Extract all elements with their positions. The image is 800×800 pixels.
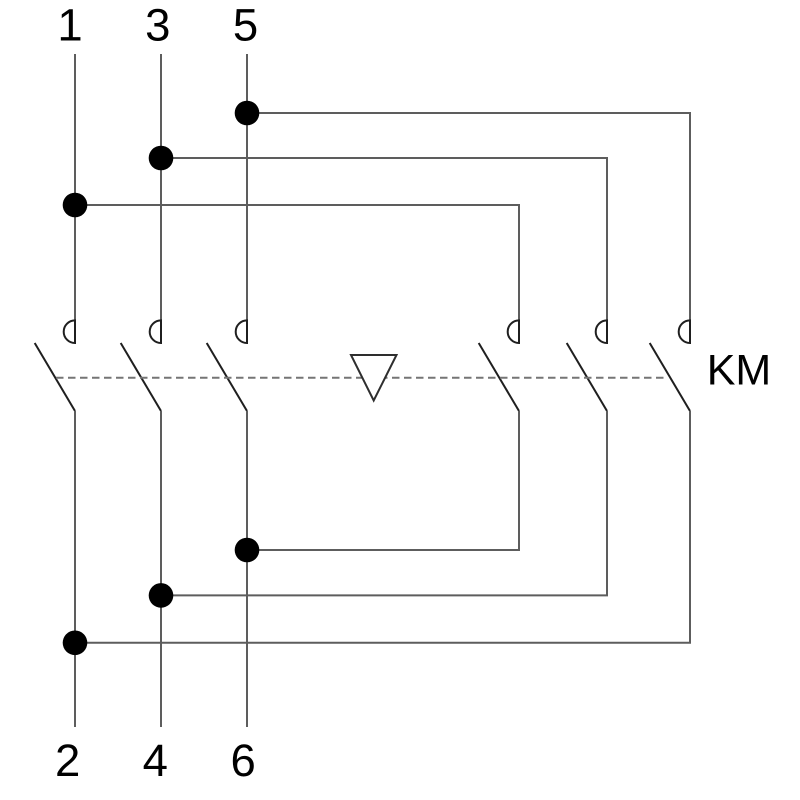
contact KM pole 4 moving blade (479, 343, 519, 411)
svg-text:3: 3 (145, 0, 170, 51)
svg-text:KM: KM (707, 347, 772, 395)
wire: from L5 junction right and down to pole 6 top (247, 113, 690, 343)
wire: pole 5 bottom down and left to L4 junction (161, 411, 607, 595)
contact KM pole 5 fixed terminal arc (596, 320, 607, 343)
actuator triangle symbol (351, 355, 397, 401)
contact KM pole 4 fixed terminal arc (508, 320, 519, 343)
svg-text:1: 1 (57, 0, 82, 51)
contact KM pole 2 moving blade (121, 343, 161, 411)
junction dot on L4 drop (149, 583, 174, 608)
contact KM pole 5 moving blade (567, 343, 607, 411)
junction dot on L3 (149, 146, 174, 171)
wire: L3 top vertical (160, 54, 162, 343)
contact KM pole 6 moving blade (650, 343, 690, 411)
junction dot on L1 (63, 193, 88, 218)
wire: L5 top vertical (246, 54, 248, 343)
svg-text:6: 6 (230, 735, 255, 786)
svg-text:2: 2 (55, 735, 80, 786)
wire: pole 6 bottom down and left to L2 junction (75, 411, 690, 643)
junction dot on L2 drop (63, 631, 88, 656)
wire: pole 1 bottom vertical to terminal 2 (74, 411, 76, 727)
wire: pole 2 bottom vertical to terminal 4 (160, 411, 162, 727)
contact KM pole 2 fixed terminal arc (150, 320, 161, 343)
wire: L1 top vertical (74, 54, 76, 343)
mechanical linkage dashed line (56, 377, 668, 379)
contact KM pole 3 fixed terminal arc (236, 320, 247, 343)
wire: pole 4 bottom down and left to L6 junction (247, 411, 519, 550)
contact KM pole 1 moving blade (35, 343, 75, 411)
junction dot on L5 (235, 101, 260, 126)
wire: from L3 junction right and down to pole 5 top (161, 158, 607, 343)
wire: from L1 junction right and down to pole 4 top (75, 205, 519, 343)
wire: pole 3 bottom vertical to terminal 6 (246, 411, 248, 727)
svg-text:5: 5 (233, 0, 258, 51)
contact KM pole 6 fixed terminal arc (679, 320, 690, 343)
svg-text:4: 4 (143, 735, 168, 786)
contact KM pole 1 fixed terminal arc (64, 320, 75, 343)
contact KM pole 3 moving blade (207, 343, 247, 411)
junction dot on L6 drop (235, 538, 260, 563)
